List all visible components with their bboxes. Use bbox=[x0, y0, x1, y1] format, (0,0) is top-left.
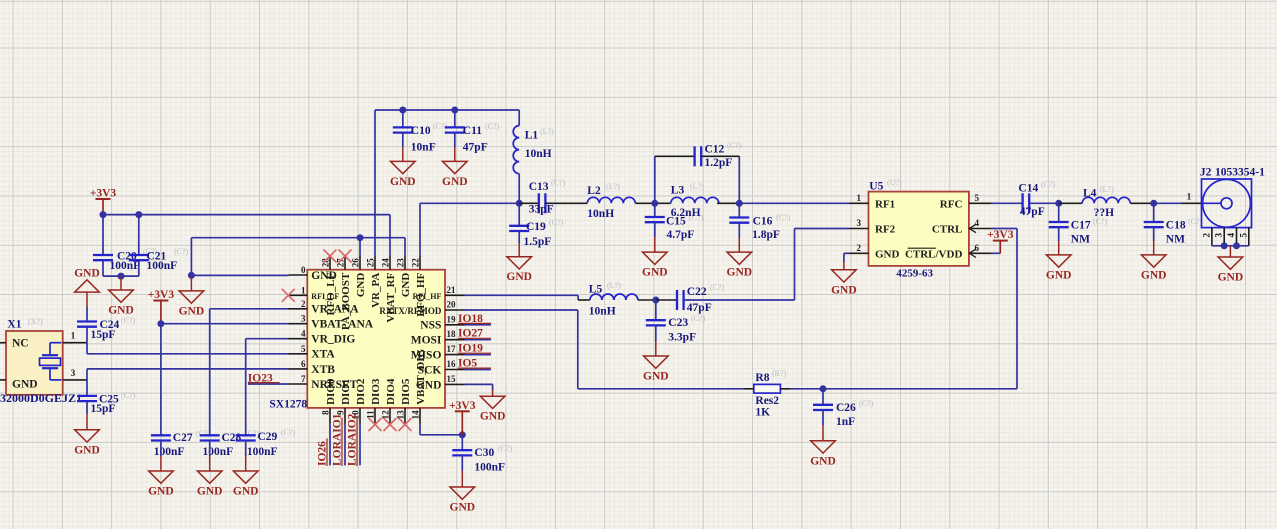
U5 pin 5 stub bbox=[969, 202, 991, 204]
wire C19 bottom bbox=[518, 231, 520, 243]
svg-text:26: 26 bbox=[351, 258, 361, 268]
svg-text:1: 1 bbox=[857, 193, 862, 203]
gnd stem bbox=[160, 456, 162, 471]
gnd stem bbox=[461, 471, 463, 487]
svg-text:3: 3 bbox=[71, 368, 76, 378]
wire to U1 pin 0 GND bbox=[191, 274, 288, 276]
svg-text:??H: ??H bbox=[1094, 207, 1115, 219]
svg-text:J2: J2 bbox=[1200, 166, 1212, 178]
svg-text:3.3pF: 3.3pF bbox=[668, 332, 696, 344]
gnd stem bbox=[1058, 241, 1060, 255]
svg-text:10nF: 10nF bbox=[411, 142, 436, 154]
svg-text:U5: U5 bbox=[869, 181, 883, 193]
svg-text:GND: GND bbox=[643, 371, 669, 383]
wire to U1 pin 26 GND bbox=[359, 238, 361, 256]
svg-text:(L?): (L?) bbox=[607, 281, 621, 290]
wire C22 to RF2 riser bbox=[684, 299, 795, 301]
ground (U1 pin 15) bbox=[480, 396, 506, 423]
svg-text:14: 14 bbox=[411, 410, 421, 420]
U1 pin 21 stub (RFI_HF) bbox=[445, 294, 465, 296]
svg-text:NM: NM bbox=[1071, 234, 1090, 246]
svg-text:C29: C29 bbox=[258, 431, 278, 443]
crystal X1 body bbox=[6, 331, 63, 395]
svg-text:(C?): (C?) bbox=[498, 444, 513, 453]
wire LORAIO2 bbox=[359, 424, 361, 466]
wire VBAT_DIG to +3V3 bbox=[420, 434, 462, 436]
U1 pin 17 stub (MISO) bbox=[445, 354, 465, 356]
wire C19 top bbox=[518, 203, 520, 226]
gnd stem bbox=[86, 414, 88, 430]
svg-text:22: 22 bbox=[411, 258, 421, 268]
svg-text:C23: C23 bbox=[668, 317, 688, 329]
svg-text:19: 19 bbox=[447, 314, 457, 324]
no-connect X on U1 pin 1 RFI_LF bbox=[282, 289, 295, 302]
U1 pin 8 stub (DIO0) bbox=[329, 408, 331, 424]
U1 pin 14 stub (VBAT_DIG) bbox=[419, 408, 421, 424]
capacitor C12 bbox=[695, 146, 702, 166]
svg-text:X1: X1 bbox=[7, 319, 21, 331]
svg-text:C27: C27 bbox=[173, 432, 193, 444]
wire RFO_HF to L1/C13 node bbox=[420, 202, 519, 204]
wire IO5 bbox=[465, 369, 491, 371]
svg-text:1K: 1K bbox=[755, 407, 770, 419]
inductor L5 bbox=[590, 294, 638, 300]
junction GND symbol tap bbox=[188, 272, 195, 279]
capacitor C26 bbox=[813, 405, 833, 410]
wire C23 bottom bbox=[655, 325, 657, 341]
L4 left stub bbox=[1059, 202, 1083, 204]
svg-text:GND: GND bbox=[400, 273, 412, 298]
svg-text:DIO5: DIO5 bbox=[400, 378, 412, 405]
ground (C15) bbox=[642, 252, 668, 279]
inductor L2 bbox=[587, 197, 635, 203]
wire C21 top bbox=[138, 215, 140, 255]
capacitor C19 bbox=[509, 226, 529, 231]
svg-text:2: 2 bbox=[857, 243, 862, 253]
svg-text:C13: C13 bbox=[529, 181, 549, 193]
gnd stem bbox=[209, 456, 211, 471]
ground (C18) bbox=[1141, 255, 1167, 282]
svg-text:5: 5 bbox=[301, 344, 306, 354]
U1 pin 9 stub (DIO1) bbox=[344, 408, 346, 424]
wire +3V3 stem bbox=[160, 301, 162, 324]
C12 left stub bbox=[655, 155, 695, 157]
svg-text:(C?): (C?) bbox=[1041, 180, 1056, 189]
wire gnd drop bbox=[492, 384, 494, 390]
wire top rail bbox=[375, 109, 519, 111]
svg-text:47pF: 47pF bbox=[1020, 206, 1045, 218]
svg-text:GND: GND bbox=[355, 273, 367, 298]
wire +3V3 rail to VBAT_RF bbox=[103, 214, 390, 216]
gnd stem bbox=[738, 238, 740, 252]
no-connect X on U1 pin 27 PA_BOOST bbox=[339, 250, 352, 263]
resistor R8 bbox=[754, 384, 781, 393]
svg-text:10nH: 10nH bbox=[589, 306, 616, 318]
svg-text:L3: L3 bbox=[671, 185, 685, 197]
C13 left stub bbox=[519, 202, 539, 204]
svg-text:(C?): (C?) bbox=[196, 429, 211, 438]
svg-text:28: 28 bbox=[321, 258, 331, 268]
svg-text:3: 3 bbox=[1214, 233, 1224, 238]
U5 pin 6 stub bbox=[969, 252, 991, 254]
wire C17 top bbox=[1058, 203, 1060, 222]
wire to U1 pin 3 VBAT_ANA bbox=[161, 323, 289, 325]
junction +3V3/C30 bbox=[459, 431, 466, 438]
wire J2 shield tie bbox=[1212, 245, 1249, 247]
svg-text:VBAT_DIG: VBAT_DIG bbox=[415, 348, 427, 404]
wire C24 bottom to pin1 net bbox=[86, 327, 88, 343]
J2 pin 1 stub bbox=[1181, 202, 1201, 204]
svg-text:(C?): (C?) bbox=[121, 391, 136, 400]
svg-text:C14: C14 bbox=[1018, 183, 1038, 195]
wire C17 bottom bbox=[1058, 227, 1060, 241]
no-connect X on U1 pin 11 DIO3 bbox=[369, 418, 382, 431]
svg-text:RF2: RF2 bbox=[875, 224, 896, 236]
wire IO27 bbox=[465, 339, 491, 341]
no-connect X on U1 pin 28 RFO_LF bbox=[324, 250, 337, 263]
ground (C25) bbox=[74, 430, 100, 457]
ground (C26) bbox=[810, 441, 836, 468]
svg-text:(C?): (C?) bbox=[859, 399, 874, 408]
capacitor C27 bbox=[151, 435, 171, 440]
junction J2 shield bbox=[1221, 242, 1228, 249]
svg-text:(C?): (C?) bbox=[727, 141, 742, 150]
svg-text:20: 20 bbox=[447, 300, 457, 310]
gnd stem bbox=[1229, 246, 1231, 257]
wire +3V3 stem bbox=[999, 241, 1001, 254]
ground (U5 pin 2) bbox=[831, 270, 857, 297]
ground (J2 shield) bbox=[1218, 257, 1244, 284]
ground (C28) bbox=[197, 471, 223, 498]
ground (C19) bbox=[506, 257, 532, 284]
ground (above C24, flipped) bbox=[74, 268, 100, 293]
junction pin26 GND bbox=[357, 234, 364, 241]
svg-text:100nF: 100nF bbox=[203, 446, 234, 458]
svg-text:4: 4 bbox=[301, 329, 306, 339]
wire VBAT_DIG down bbox=[419, 424, 421, 435]
svg-text:GND: GND bbox=[506, 271, 532, 283]
X1 pin 3 stub bbox=[63, 379, 87, 381]
wire down to U1 pin 24 bbox=[389, 215, 391, 256]
wire CTRL riser bbox=[1016, 229, 1018, 389]
U1 pin 11 stub (DIO3) bbox=[374, 408, 376, 424]
svg-text:VR_DIG: VR_DIG bbox=[311, 334, 355, 346]
U1 pin 15 stub (GND) bbox=[445, 383, 465, 385]
svg-text:11: 11 bbox=[366, 410, 376, 419]
svg-text:23: 23 bbox=[396, 258, 406, 268]
crystal element inside X1 bbox=[40, 343, 62, 380]
svg-text:GND: GND bbox=[12, 379, 38, 391]
wire C18 top bbox=[1153, 203, 1155, 222]
junction C15/C12 bbox=[651, 200, 658, 207]
ground (C30) bbox=[450, 487, 476, 514]
U5 pin 3 stub (RF2) bbox=[849, 228, 869, 230]
U1 pin 10 stub (DIO2) bbox=[359, 408, 361, 424]
svg-text:C28: C28 bbox=[222, 432, 242, 444]
svg-text:RF1: RF1 bbox=[875, 198, 895, 210]
wire to R8 bbox=[578, 388, 744, 390]
svg-text:GND: GND bbox=[1046, 269, 1072, 281]
svg-text:GND: GND bbox=[108, 305, 134, 317]
wire to U5 RF1 bbox=[739, 202, 849, 204]
svg-text:33pF: 33pF bbox=[529, 204, 554, 216]
svg-text:C12: C12 bbox=[705, 144, 725, 156]
wire jog bbox=[577, 295, 579, 300]
U1 pin 2 stub (VR_ANA) bbox=[289, 308, 308, 310]
svg-text:(C?): (C?) bbox=[551, 178, 566, 187]
svg-text:L2: L2 bbox=[587, 185, 601, 197]
gnd stem bbox=[190, 275, 192, 291]
wire XTA net to U1 pin 5 bbox=[87, 353, 289, 355]
junction +3V3/C27 bbox=[157, 320, 164, 327]
svg-text:GND: GND bbox=[480, 411, 506, 423]
svg-text:(L?): (L?) bbox=[1100, 185, 1114, 194]
U1 pin 5 stub (XTA) bbox=[289, 353, 308, 355]
gnd stem bbox=[492, 390, 494, 396]
wire C30 top bbox=[461, 435, 463, 450]
gnd stem bbox=[454, 147, 456, 161]
svg-text:DIO2: DIO2 bbox=[355, 378, 367, 405]
ground (C17) bbox=[1046, 255, 1072, 282]
svg-text:C19: C19 bbox=[526, 221, 546, 233]
svg-text:12: 12 bbox=[381, 410, 391, 420]
svg-text:6: 6 bbox=[301, 359, 306, 369]
ground (C23) bbox=[643, 356, 669, 383]
inductor L1 bbox=[513, 126, 519, 174]
U1 pin 24 stub (VBAT_RF) bbox=[389, 256, 391, 270]
capacitor C10 bbox=[393, 127, 413, 132]
U1 pin 27 stub (PA_BOOST) bbox=[344, 256, 346, 270]
wire C11 bottom bbox=[454, 133, 456, 147]
capacitor C28 bbox=[200, 435, 220, 440]
junction +3V3/C20 bbox=[100, 211, 107, 218]
junction C11 bbox=[451, 107, 458, 114]
wire U5 pin2 GND bbox=[844, 252, 849, 254]
junction L1/C13/C19 bbox=[516, 200, 523, 207]
svg-text:18: 18 bbox=[447, 329, 457, 339]
svg-text:NC: NC bbox=[12, 338, 29, 350]
svg-text:GND: GND bbox=[233, 486, 259, 498]
wire to U5 pin 4 CTRL bbox=[991, 228, 1017, 230]
svg-text:100nF: 100nF bbox=[110, 260, 141, 272]
svg-text:(C?): (C?) bbox=[485, 122, 500, 131]
svg-text:GND: GND bbox=[74, 444, 100, 456]
svg-text:27: 27 bbox=[336, 258, 346, 268]
U5 pin 1 stub (RF1) bbox=[849, 202, 869, 204]
capacitor C14 bbox=[1023, 193, 1030, 213]
svg-text:832000D0GEJZ1: 832000D0GEJZ1 bbox=[0, 391, 82, 405]
wire down to C29 bbox=[245, 339, 247, 436]
svg-text:GND: GND bbox=[810, 455, 836, 467]
capacitor C29 bbox=[236, 435, 256, 440]
svg-text:RFC: RFC bbox=[940, 198, 963, 210]
svg-text:17: 17 bbox=[447, 344, 457, 354]
svg-text:(R?): (R?) bbox=[772, 369, 787, 378]
no-connect X on U1 pin 12 DIO4 bbox=[384, 418, 397, 431]
svg-text:GND: GND bbox=[642, 267, 668, 279]
junction C26 bbox=[820, 385, 827, 392]
capacitor C16 bbox=[729, 218, 749, 223]
svg-text:47pF: 47pF bbox=[687, 302, 712, 314]
U1 pin 22 stub (RFO_HF) bbox=[419, 256, 421, 270]
svg-text:10nH: 10nH bbox=[587, 208, 614, 220]
U1 pin 18 stub (MOSI) bbox=[445, 339, 465, 341]
svg-text:CTRL/VDD: CTRL/VDD bbox=[905, 248, 963, 260]
ground (C29) bbox=[233, 471, 259, 498]
wire RF2 riser bbox=[794, 229, 796, 301]
svg-text:PA_BOOST: PA_BOOST bbox=[340, 272, 352, 330]
U1 pin 26 stub (GND) bbox=[359, 256, 361, 270]
wire down to XTA row bbox=[86, 343, 88, 354]
wire down to C28 bbox=[209, 309, 211, 436]
svg-text:(U?): (U?) bbox=[887, 178, 902, 187]
capacitor C23 bbox=[646, 320, 666, 325]
wire C29 bottom bbox=[245, 441, 247, 457]
wire GND net vertical bbox=[190, 238, 192, 276]
junction J2 shield 2 bbox=[1233, 242, 1240, 249]
svg-text:GND: GND bbox=[831, 284, 857, 296]
U1 pin 7 stub (NRESET) bbox=[289, 383, 308, 385]
junction C16/C12 bbox=[736, 200, 743, 207]
svg-text:100nF: 100nF bbox=[247, 446, 278, 458]
gnd stem bbox=[518, 243, 520, 257]
ground (C10) bbox=[390, 161, 416, 188]
wire L1 top bbox=[518, 110, 520, 126]
svg-text:C11: C11 bbox=[463, 125, 482, 137]
wire IO19 bbox=[465, 354, 491, 356]
svg-text:1.2pF: 1.2pF bbox=[705, 157, 733, 169]
capacitor C18 bbox=[1144, 222, 1164, 227]
wire C25 bottom bbox=[86, 401, 88, 414]
wire VR_PA riser (U1 pin 25) bbox=[374, 110, 376, 256]
svg-text:1nF: 1nF bbox=[836, 416, 855, 428]
capacitor C17 bbox=[1049, 222, 1069, 227]
wire C15 top bbox=[654, 203, 656, 217]
wire C16 bottom bbox=[738, 223, 740, 238]
svg-text:C30: C30 bbox=[474, 447, 494, 459]
svg-text:+3V3: +3V3 bbox=[987, 229, 1014, 241]
capacitor C15 bbox=[645, 217, 665, 222]
J2 pin 3 stub bbox=[1223, 228, 1225, 246]
L4 right stub bbox=[1130, 202, 1154, 204]
svg-text:1.5pF: 1.5pF bbox=[524, 236, 552, 248]
wire +3V3 stem bbox=[461, 411, 463, 435]
U1 pin 16 stub (SCK) bbox=[445, 369, 465, 371]
svg-text:+3V3: +3V3 bbox=[148, 289, 175, 301]
svg-text:GND: GND bbox=[179, 305, 205, 317]
wire down to C27 bbox=[160, 324, 162, 436]
svg-text:Res2: Res2 bbox=[755, 395, 779, 407]
svg-text:2: 2 bbox=[301, 299, 306, 309]
wire C29 to U1 pin 4 VR_DIG bbox=[246, 338, 289, 340]
wire C24 top bbox=[86, 307, 88, 322]
wire RFC to C14 bbox=[991, 202, 1023, 204]
svg-text:0: 0 bbox=[301, 265, 306, 275]
power +3V3 (analog rail) bbox=[148, 289, 175, 301]
svg-text:1: 1 bbox=[1187, 191, 1192, 201]
U5 pin 4 stub bbox=[969, 228, 991, 230]
wire NRESET / IO23 bbox=[248, 383, 289, 385]
svg-text:GND: GND bbox=[390, 176, 416, 188]
wire C12 left riser bbox=[654, 156, 656, 203]
power +3V3 (C20/C21 rail) bbox=[90, 188, 117, 200]
IC U1 SX1278 body bbox=[307, 270, 445, 408]
wire C28 to U1 pin 2 VR_ANA bbox=[210, 308, 289, 310]
junction L5/C22/C23 bbox=[652, 297, 659, 304]
svg-text:C22: C22 bbox=[687, 286, 707, 298]
C22 left stub bbox=[656, 299, 677, 301]
svg-text:3: 3 bbox=[301, 314, 306, 324]
X1 pin 1 stub bbox=[63, 342, 87, 344]
ground (C20/C21) bbox=[108, 290, 134, 317]
junction C21 tap bbox=[135, 211, 142, 218]
svg-text:DIO0: DIO0 bbox=[325, 378, 337, 405]
wire U5 pin6 to +3V3 bbox=[991, 252, 1000, 254]
svg-text:VBAT_RF: VBAT_RF bbox=[385, 272, 397, 322]
inductor L4 bbox=[1082, 197, 1130, 203]
gnd stem bbox=[402, 147, 404, 161]
svg-text:16: 16 bbox=[447, 359, 457, 369]
inductor L3 bbox=[671, 197, 719, 203]
svg-text:10nH: 10nH bbox=[525, 148, 552, 160]
U1 pin 0 stub (GND) bbox=[289, 274, 308, 276]
capacitor C21 bbox=[129, 255, 149, 260]
gnd stem (flipped) bbox=[86, 292, 88, 307]
svg-text:100nF: 100nF bbox=[474, 462, 505, 474]
wire C30 bottom bbox=[461, 455, 463, 471]
svg-text:100nF: 100nF bbox=[147, 260, 178, 272]
svg-text:5: 5 bbox=[1238, 233, 1248, 238]
junction gnd tie bbox=[118, 273, 125, 280]
junction C18/J2 bbox=[1150, 200, 1157, 207]
ground (U1 GND pins) bbox=[179, 291, 205, 318]
svg-text:CTRL: CTRL bbox=[932, 224, 963, 236]
X1 left stub (pin 2) bbox=[0, 342, 6, 344]
L5 right stub bbox=[638, 299, 656, 301]
svg-text:(C?): (C?) bbox=[281, 428, 296, 437]
svg-text:RFO_LF: RFO_LF bbox=[325, 272, 337, 315]
wire L1 bottom bbox=[518, 174, 520, 204]
svg-text:L5: L5 bbox=[589, 284, 603, 296]
svg-text:(X?): (X?) bbox=[28, 317, 43, 326]
L2-L3 stub bbox=[635, 202, 671, 204]
svg-text:(L?): (L?) bbox=[690, 182, 704, 191]
svg-text:4.7pF: 4.7pF bbox=[667, 229, 695, 241]
ground (C16) bbox=[727, 252, 753, 279]
gnd stem bbox=[245, 456, 247, 471]
svg-text:C26: C26 bbox=[836, 402, 856, 414]
junction C10 bbox=[399, 107, 406, 114]
capacitor C22 bbox=[677, 290, 684, 310]
svg-text:GND: GND bbox=[1218, 272, 1244, 284]
wire R8 to CTRL riser bbox=[790, 388, 1017, 390]
svg-text:DIO3: DIO3 bbox=[370, 378, 382, 405]
wire gnd drop bbox=[843, 253, 845, 262]
wire RFO_HF riser (U1 pin 22) bbox=[419, 203, 421, 255]
U1 pin 13 stub (DIO5) bbox=[404, 408, 406, 424]
wire C26 bottom bbox=[822, 410, 824, 425]
wire C26 top bbox=[822, 389, 824, 405]
svg-text:NM: NM bbox=[1166, 234, 1185, 246]
wire to U5 RF2 bbox=[795, 228, 850, 230]
svg-text:8: 8 bbox=[321, 410, 331, 415]
wire C27 bottom bbox=[160, 441, 162, 457]
wire C14 to C17 node bbox=[1029, 202, 1059, 204]
U1 pin 19 stub (NSS) bbox=[445, 324, 465, 326]
svg-text:47pF: 47pF bbox=[463, 142, 488, 154]
svg-text:(C?): (C?) bbox=[121, 316, 136, 325]
svg-text:15pF: 15pF bbox=[91, 329, 116, 341]
